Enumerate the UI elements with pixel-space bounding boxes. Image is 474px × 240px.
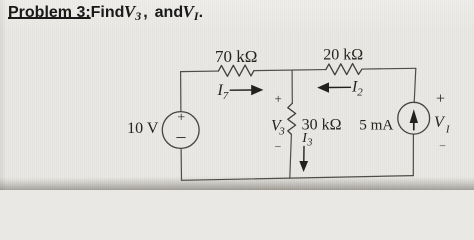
svg-text:–: – xyxy=(274,140,281,152)
svg-text:I: I xyxy=(445,125,450,136)
wire right edge upper xyxy=(414,68,416,102)
svg-text:10 V: 10 V xyxy=(127,120,159,137)
resistor R2 20 kOhm zigzag xyxy=(326,64,362,75)
resistor R3 30 kOhm vertical zigzag xyxy=(288,103,296,134)
wire middle branch lower xyxy=(290,134,292,178)
svg-text:70 kΩ: 70 kΩ xyxy=(215,47,257,66)
current I7 arrow shaft xyxy=(230,89,251,91)
current I2 arrow head xyxy=(317,82,329,92)
svg-text:–: – xyxy=(176,126,187,146)
wire top edge left segment xyxy=(181,70,219,73)
current source arrow head xyxy=(410,109,418,123)
current I3 arrow head xyxy=(299,161,308,172)
svg-text:3: 3 xyxy=(306,137,312,148)
wire top edge middle segment xyxy=(254,70,326,71)
svg-text:+: + xyxy=(177,111,185,126)
current I3 arrow shaft xyxy=(303,147,305,162)
svg-text:20 kΩ: 20 kΩ xyxy=(323,47,363,64)
svg-text:–: – xyxy=(439,140,446,152)
wire right edge lower xyxy=(412,134,414,176)
svg-text:V: V xyxy=(434,114,446,131)
wire left edge upper xyxy=(180,72,182,112)
voltage source V 10V circle xyxy=(162,112,199,149)
wire left edge lower xyxy=(180,148,182,180)
current I7 arrow head xyxy=(251,85,263,95)
svg-text:2: 2 xyxy=(357,86,363,98)
current source arrow stem xyxy=(413,122,415,130)
svg-text:+: + xyxy=(275,91,282,106)
current source I 5mA circle xyxy=(398,102,430,134)
title xyxy=(8,2,203,24)
wire top edge right segment xyxy=(362,67,416,70)
svg-text:5 mA: 5 mA xyxy=(359,116,393,133)
wire bottom edge xyxy=(182,176,414,181)
svg-text:7: 7 xyxy=(223,90,229,102)
svg-text:3: 3 xyxy=(278,125,285,137)
svg-text:+: + xyxy=(436,91,445,108)
current I2 arrow shaft xyxy=(329,86,351,88)
wire middle branch upper xyxy=(291,70,293,103)
svg-text:30 kΩ: 30 kΩ xyxy=(302,117,342,134)
resistor R1 70 kOhm zigzag xyxy=(218,65,254,76)
